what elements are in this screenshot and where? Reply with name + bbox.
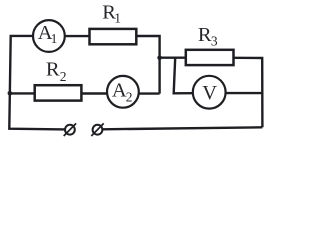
svg-text:1: 1	[114, 11, 121, 26]
wire parallel-left vertical down to V	[174, 58, 193, 94]
wire left loop: top-left corner, left vertical, bottom-left segment	[9, 36, 65, 129]
svg-text:A: A	[112, 79, 127, 101]
wire R3 to right vertical, right vertical down	[234, 58, 263, 128]
resistor R3	[186, 24, 234, 65]
wire R1 right, corner, junction vertical	[136, 36, 159, 94]
wire bottom right segment	[103, 127, 263, 129]
terminal 2	[91, 123, 103, 136]
resistor R1	[90, 2, 137, 45]
wire junction stub to R3	[160, 57, 187, 59]
terminal 1	[64, 123, 76, 136]
svg-text:R: R	[198, 24, 212, 46]
svg-text:2: 2	[126, 90, 133, 105]
svg-text:V: V	[202, 82, 217, 104]
voltmeter V	[193, 76, 226, 109]
resistor R2	[35, 59, 82, 101]
wire V to right vertical	[226, 92, 263, 94]
ammeter A1	[33, 20, 65, 52]
wire A2 to junction vertical	[139, 92, 160, 94]
svg-text:3: 3	[211, 33, 218, 48]
svg-text:R: R	[46, 59, 60, 81]
wire middle branch left	[10, 92, 36, 94]
wire A1 to R1	[65, 35, 90, 37]
wire R2 to A2	[81, 92, 107, 94]
svg-text:2: 2	[60, 69, 67, 84]
ammeter A2	[107, 76, 139, 108]
node junction dot middle	[157, 55, 162, 60]
node junction dot left	[8, 91, 13, 96]
svg-text:1: 1	[51, 31, 58, 46]
